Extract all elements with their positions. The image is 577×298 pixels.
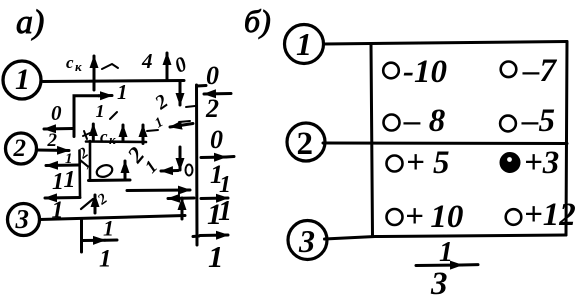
svg-text:+12: +12 xyxy=(524,197,576,233)
svg-text:2: 2 xyxy=(205,94,219,123)
svg-text:2: 2 xyxy=(94,191,111,209)
svg-text:0: 0 xyxy=(51,101,62,125)
svg-text:2: 2 xyxy=(297,126,314,162)
svg-text:1: 1 xyxy=(64,167,76,193)
svg-text:1: 1 xyxy=(141,156,162,177)
svg-text:0: 0 xyxy=(171,51,191,77)
svg-text:3: 3 xyxy=(430,266,448,298)
svg-text:1: 1 xyxy=(15,63,30,96)
svg-text:3: 3 xyxy=(15,204,30,234)
svg-text:1: 1 xyxy=(117,80,128,104)
svg-text:1: 1 xyxy=(439,237,453,268)
svg-text:+3: +3 xyxy=(524,145,559,181)
svg-text:с: с xyxy=(100,127,108,146)
svg-text:+ 10: + 10 xyxy=(405,199,463,235)
svg-text:1: 1 xyxy=(52,198,64,224)
svg-text:а): а) xyxy=(16,4,44,41)
svg-text:1: 1 xyxy=(153,115,167,131)
svg-text:0: 0 xyxy=(206,61,219,90)
svg-text:1: 1 xyxy=(96,101,105,121)
svg-text:+ 5: + 5 xyxy=(406,145,450,181)
svg-text:1: 1 xyxy=(99,246,112,273)
svg-text:0: 0 xyxy=(210,125,223,154)
svg-text:1: 1 xyxy=(52,169,64,195)
svg-text:2: 2 xyxy=(13,135,27,162)
svg-text:1: 1 xyxy=(208,239,224,274)
svg-text:3: 3 xyxy=(298,223,315,259)
svg-text:1: 1 xyxy=(65,151,73,167)
svg-text:–5: –5 xyxy=(521,103,555,139)
svg-text:б): б) xyxy=(244,3,271,39)
svg-text:к: к xyxy=(109,132,116,147)
svg-text:2: 2 xyxy=(150,90,172,114)
svg-text:1: 1 xyxy=(103,216,114,241)
svg-text:2: 2 xyxy=(47,130,58,151)
svg-text:1: 1 xyxy=(218,196,232,227)
svg-text:к: к xyxy=(75,59,82,74)
svg-text:4: 4 xyxy=(141,49,153,73)
svg-text:– 8: – 8 xyxy=(403,103,445,139)
svg-text:-10: -10 xyxy=(403,54,447,90)
svg-text:1: 1 xyxy=(296,26,312,62)
svg-text:1: 1 xyxy=(219,172,231,198)
svg-text:с: с xyxy=(66,53,74,72)
svg-text:–7: –7 xyxy=(522,53,558,89)
